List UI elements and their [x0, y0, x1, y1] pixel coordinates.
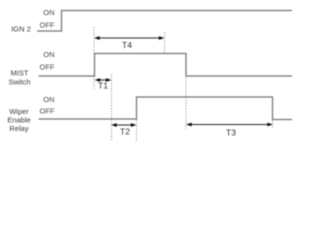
dotted guide x=186: [185, 78, 187, 129]
Wiper Enable Relay waveform: [39, 97, 293, 120]
T1 arrow: [99, 79, 107, 81]
svg-text:OFF: OFF: [40, 63, 55, 72]
T4 arrow: [99, 37, 160, 39]
svg-text:OFF: OFF: [40, 107, 55, 116]
svg-text:MIST: MIST: [11, 69, 29, 78]
svg-text:T4: T4: [122, 40, 132, 50]
svg-text:T2: T2: [120, 127, 130, 137]
svg-text:ON: ON: [43, 95, 54, 104]
dotted guide x=272.5: [272, 121, 274, 129]
dotted guide x=94 upper: [93, 27, 95, 53]
T2 arrow: [115, 124, 132, 126]
dotted guide x=94 lower: [93, 77, 95, 89]
svg-text:OFF: OFF: [40, 21, 55, 30]
T3 arrow: [191, 124, 268, 126]
svg-text:T1: T1: [98, 81, 108, 91]
svg-text:Relay: Relay: [9, 124, 28, 133]
MIST Switch waveform: [39, 54, 293, 77]
svg-text:T3: T3: [226, 128, 236, 138]
svg-text:Switch: Switch: [8, 78, 30, 87]
svg-text:IGN 2: IGN 2: [11, 25, 31, 34]
dotted guide x=111.5: [111, 75, 113, 142]
svg-text:ON: ON: [43, 8, 54, 17]
svg-text:ON: ON: [43, 50, 54, 59]
dotted guide x=164.5: [164, 32, 166, 53]
dotted guide x=136.5: [136, 120, 138, 141]
IGN 2 waveform: [37, 11, 292, 32]
